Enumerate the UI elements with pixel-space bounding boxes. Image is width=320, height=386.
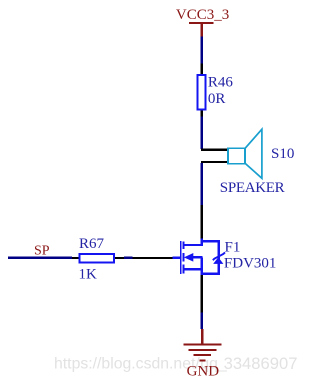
svg-text:https://blog.csdn.net/: https://blog.csdn.net/: [54, 356, 200, 373]
svg-text:FDV301: FDV301: [224, 255, 277, 271]
svg-text:S10: S10: [271, 146, 294, 162]
svg-text:1K: 1K: [79, 267, 98, 283]
svg-text:0R: 0R: [208, 91, 226, 107]
svg-text:SP: SP: [34, 243, 50, 258]
svg-text:VCC3_3: VCC3_3: [176, 7, 229, 23]
svg-text:F1: F1: [225, 240, 241, 256]
svg-text:R46: R46: [208, 75, 234, 91]
svg-text:R67: R67: [79, 236, 105, 252]
svg-text:GND: GND: [187, 364, 220, 380]
svg-text:33486907: 33486907: [224, 354, 298, 373]
svg-text:SPEAKER: SPEAKER: [220, 180, 285, 196]
